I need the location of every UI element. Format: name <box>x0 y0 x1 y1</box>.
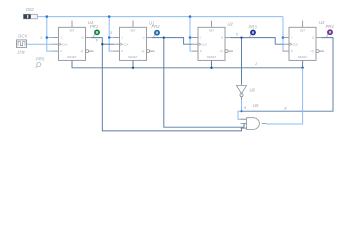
node: junction J2 <box>108 36 111 39</box>
svg-text:8: 8 <box>285 106 287 110</box>
wire: Q3 to inverter input <box>241 38 243 86</box>
node: junction J1 <box>46 36 49 39</box>
wire: AND output up to reset bus <box>267 68 303 124</box>
wire: branch to U4 J <box>47 37 53 39</box>
wire: Q1 drop to AND input <box>102 44 246 131</box>
wire: U3 reset pin drop <box>302 60 304 67</box>
svg-text:CLK: CLK <box>62 42 68 46</box>
svg-text:D02: D02 <box>26 7 34 12</box>
node: junction inverter out / Q4 <box>240 110 242 112</box>
node: junction Q3/inverter <box>240 36 242 38</box>
probe PR4 <box>327 30 333 37</box>
wire: Q2 drop to AND input <box>164 38 247 128</box>
wire: Q4 net from U3 Q <box>242 38 334 112</box>
probe PR5 (unconnected) <box>36 63 41 68</box>
svg-text:3: 3 <box>110 31 112 35</box>
wire: branch to U2 J <box>190 37 192 39</box>
svg-text:RESET: RESET <box>128 55 138 59</box>
wire: Q1 to U1 CLK <box>102 43 113 45</box>
wire: Q2 net from U1 Q <box>152 38 192 45</box>
svg-text:SET: SET <box>300 28 306 32</box>
AND gate U5 <box>241 118 267 130</box>
probe PR1 <box>94 30 100 37</box>
switch S1 body <box>23 14 37 18</box>
flip-flop U1 <box>114 21 155 61</box>
svg-text:PR4: PR4 <box>326 24 335 29</box>
node: junction switch net at x46.8 <box>46 15 49 18</box>
wire: switch net drop to U4 J/K <box>47 17 53 52</box>
svg-text:RESET: RESET <box>207 55 217 59</box>
probe PR3 <box>250 30 256 37</box>
node: junction switch net at x109.2 <box>108 15 111 18</box>
clock source V1 body <box>17 40 27 48</box>
flip-flop U4 <box>53 21 94 61</box>
node: junction reset U3 / AND out <box>301 67 303 69</box>
wire: switch net drop to U1 J/K <box>109 17 113 52</box>
node: junction Q2 <box>163 36 165 38</box>
svg-text:U3: U3 <box>319 20 325 25</box>
svg-text:2: 2 <box>254 62 257 66</box>
node: junction J4 <box>282 36 285 39</box>
wire: U1 reset pin drop <box>132 60 134 67</box>
svg-text:5: 5 <box>244 106 246 110</box>
wire: U2 reset pin drop <box>211 60 213 67</box>
svg-text:K: K <box>122 49 124 53</box>
flip-flop U2 <box>192 21 233 61</box>
wire: switch net horizontal top <box>37 16 283 18</box>
svg-text:SET: SET <box>69 28 75 32</box>
svg-text:CLK: CLK <box>293 42 299 46</box>
node: junction reset U2 <box>210 67 212 69</box>
svg-text:U5: U5 <box>253 103 259 108</box>
svg-text:1Hz: 1Hz <box>17 49 25 54</box>
svg-text:SET: SET <box>209 28 215 32</box>
svg-text:K: K <box>200 49 202 53</box>
svg-text:1: 1 <box>40 36 42 40</box>
svg-text:6: 6 <box>96 39 98 43</box>
svg-text:RESET: RESET <box>67 55 77 59</box>
svg-text:U2: U2 <box>228 21 234 26</box>
node: junction switch net at x190 <box>189 15 192 18</box>
svg-text:PR5: PR5 <box>36 57 45 62</box>
svg-text:K: K <box>61 49 63 53</box>
wire: clock net to U4 CLK <box>27 43 53 45</box>
node: junction Q1/CLK2 <box>101 43 103 45</box>
wire: switch net drop to U3 J/K <box>283 17 284 52</box>
inverter U6 <box>237 83 247 100</box>
svg-text:DCV: DCV <box>18 34 28 39</box>
wire: inverter output to AND input <box>238 100 247 119</box>
svg-text:PR2: PR2 <box>152 24 161 29</box>
wire: Q1 net from U4 Q <box>91 38 102 45</box>
svg-text:CLK: CLK <box>202 42 208 46</box>
wire: switch net drop to U2 J/K <box>190 17 192 52</box>
svg-text:CLK: CLK <box>123 42 129 46</box>
svg-text:PR3: PR3 <box>249 25 258 30</box>
svg-text:PR1: PR1 <box>90 24 98 29</box>
svg-text:U6: U6 <box>250 88 256 93</box>
node: junction reset U1 <box>132 67 134 69</box>
svg-text:SET: SET <box>130 28 136 32</box>
flip-flop U3 <box>283 21 324 61</box>
svg-text:K: K <box>291 49 293 53</box>
wire: branch to U1 J <box>109 37 113 39</box>
probe PR2 <box>154 30 160 37</box>
svg-text:5: 5 <box>236 33 238 37</box>
wire: reset bus <box>72 60 303 67</box>
svg-text:RESET: RESET <box>298 55 308 59</box>
node: junction J3 <box>189 36 192 39</box>
wire: Q3 net from U2 Q <box>231 38 284 45</box>
